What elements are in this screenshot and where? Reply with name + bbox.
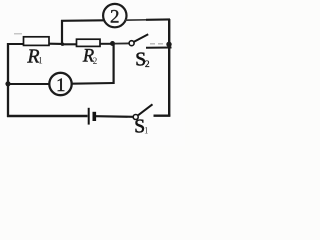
switch S2: [129, 34, 150, 70]
wire between R1 and stub: [49, 43, 62, 45]
wire main branch left segment: [7, 43, 25, 45]
svg-text:1: 1: [38, 56, 43, 66]
wire left vertical: [7, 43, 9, 117]
svg-text:2: 2: [93, 56, 98, 66]
battery: [89, 108, 95, 125]
resistor R1: [24, 37, 50, 68]
switch S1: [133, 104, 152, 137]
wire bottom right to corner: [154, 114, 171, 116]
svg-text:2: 2: [110, 6, 120, 27]
wire node to meter 1: [8, 83, 50, 85]
svg-text:1: 1: [144, 126, 149, 136]
node junction of ammeter branch: [110, 41, 115, 46]
svg-text:1: 1: [56, 75, 66, 96]
node at right vertical: [166, 42, 171, 47]
svg-text:2: 2: [145, 60, 150, 70]
wire battery to switch S1: [96, 115, 133, 118]
wire dashes right of switch S2: [150, 43, 166, 45]
node on left wire at ammeter branch: [5, 81, 10, 86]
resistor R2: [77, 39, 101, 66]
wire meter 1 to right: [72, 82, 115, 85]
wire top branch to meter 2: [61, 19, 104, 22]
faint dash left of meter 2: [94, 19, 100, 21]
wire between stub and R2: [62, 43, 77, 45]
wire bottom left: [7, 115, 88, 117]
node at stub junction: [61, 43, 64, 46]
wire right vertical: [168, 19, 170, 116]
faint dash above R1: [14, 33, 22, 35]
wire from meter 2 to right vertical: [125, 18, 170, 21]
wire vertical up from meter 1 branch to node: [112, 44, 114, 85]
wire R2 to node: [100, 43, 114, 45]
meter 2 (circle with 2): [103, 4, 126, 28]
wire node to switch S2: [114, 42, 129, 44]
wire stub up to voltmeter branch: [61, 20, 63, 45]
meter 1 (circle with 1): [49, 73, 71, 96]
wire stub below S2 to right vertical: [146, 47, 172, 49]
